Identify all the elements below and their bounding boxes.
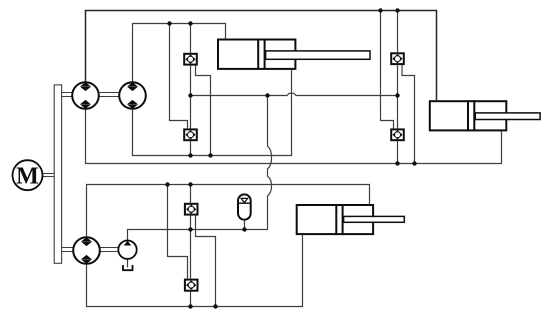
wire: node H to check valve CV5 inlet [190, 185, 192, 203]
wire: pump P1 top port to cylinder C2 top port [86, 11, 437, 101]
wire: pump P4 drain to tank [127, 259, 129, 267]
wire: node D to check valve CV3 inlet [397, 11, 399, 53]
shaft: pump P3 to pump P4 double line [100, 248, 119, 252]
wire: node I to check valve CV6 inlet (jogged) [168, 185, 188, 279]
shaft: main drive bar [54, 85, 61, 263]
wire: check valve CV2 outlet to line L2 [190, 141, 192, 155]
wire: node A to check valve CV1 inlet [190, 24, 192, 53]
cylinder C1 (double acting) [218, 39, 370, 70]
accumulator A1 (gas charged) [238, 194, 251, 219]
wire: pump P2 top port to cylinder C1 top port [133, 24, 226, 83]
svg-text:M: M [16, 164, 39, 190]
pump P3: bidirectional pump/motor [73, 237, 100, 264]
wire: check valve CV1 outlet through node C to CV2 [190, 66, 192, 129]
wire: check valve CV4 outlet to line L1 [397, 141, 399, 163]
cylinder C2 (double acting) [430, 100, 540, 131]
shaft: pump P1 to pump P2 double line [99, 93, 120, 97]
wire: check valve CV5 outlet through node J to CV6 [190, 216, 192, 279]
pump P4: fixed displacement boost pump [118, 241, 136, 259]
wire: manifold line L3 with hop over cylinder C1 return [191, 93, 398, 95]
wire: node B to check valve CV2 inlet (jogged) [170, 24, 188, 129]
check valve CV2 (pilot-operated) [184, 129, 197, 140]
shaft: bar to pump P1 double line [62, 93, 73, 97]
shaft: motor coupling double line [43, 174, 54, 177]
wire: crossover from node G down to accumulator line, wavy hops [128, 96, 272, 241]
wire: check valve CV1 pilot line [196, 66, 211, 156]
wire: node E to check valve CV4 inlet (jogged) [381, 11, 394, 129]
wire: pump P3 top port to cylinder C3 top port [87, 185, 370, 238]
check valve CV3 (pilot-operated) [391, 53, 404, 64]
wire: pump P3 bottom port to cylinder C3 bottom port [87, 235, 303, 306]
wire: check valve CV6 outlet to tank return line [190, 292, 192, 307]
wire: accumulator stem [244, 221, 246, 230]
shaft: bar to pump P3 double line [62, 248, 73, 252]
check valve CV6 (pilot-operated) [185, 280, 198, 291]
wire: pump P1 bottom port to cylinder C2 bottom port (line L1) [86, 109, 502, 164]
pump P2: bidirectional pump/motor [119, 82, 146, 109]
wire: check valve CV3 pilot line [402, 65, 415, 163]
motor M1 (electric motor) [13, 160, 43, 190]
tank symbol under pump P4 [123, 265, 133, 270]
junction node dots [165, 8, 416, 308]
check valve CV4 (pilot-operated) [391, 129, 404, 140]
wire: pump P2 bottom port to cylinder C1 bottom port (line L2) [133, 70, 292, 156]
wire: check valve CV3 outlet through node F to CV4 [397, 65, 399, 128]
check valve CV5 (pilot-operated) [185, 204, 198, 215]
wire: check valve CV5 pilot line [196, 216, 216, 307]
cylinder C3 (double acting) [297, 204, 405, 235]
check valve CV1 (pilot-operated) [184, 54, 197, 65]
pump P1: bidirectional pump/motor [72, 82, 99, 109]
